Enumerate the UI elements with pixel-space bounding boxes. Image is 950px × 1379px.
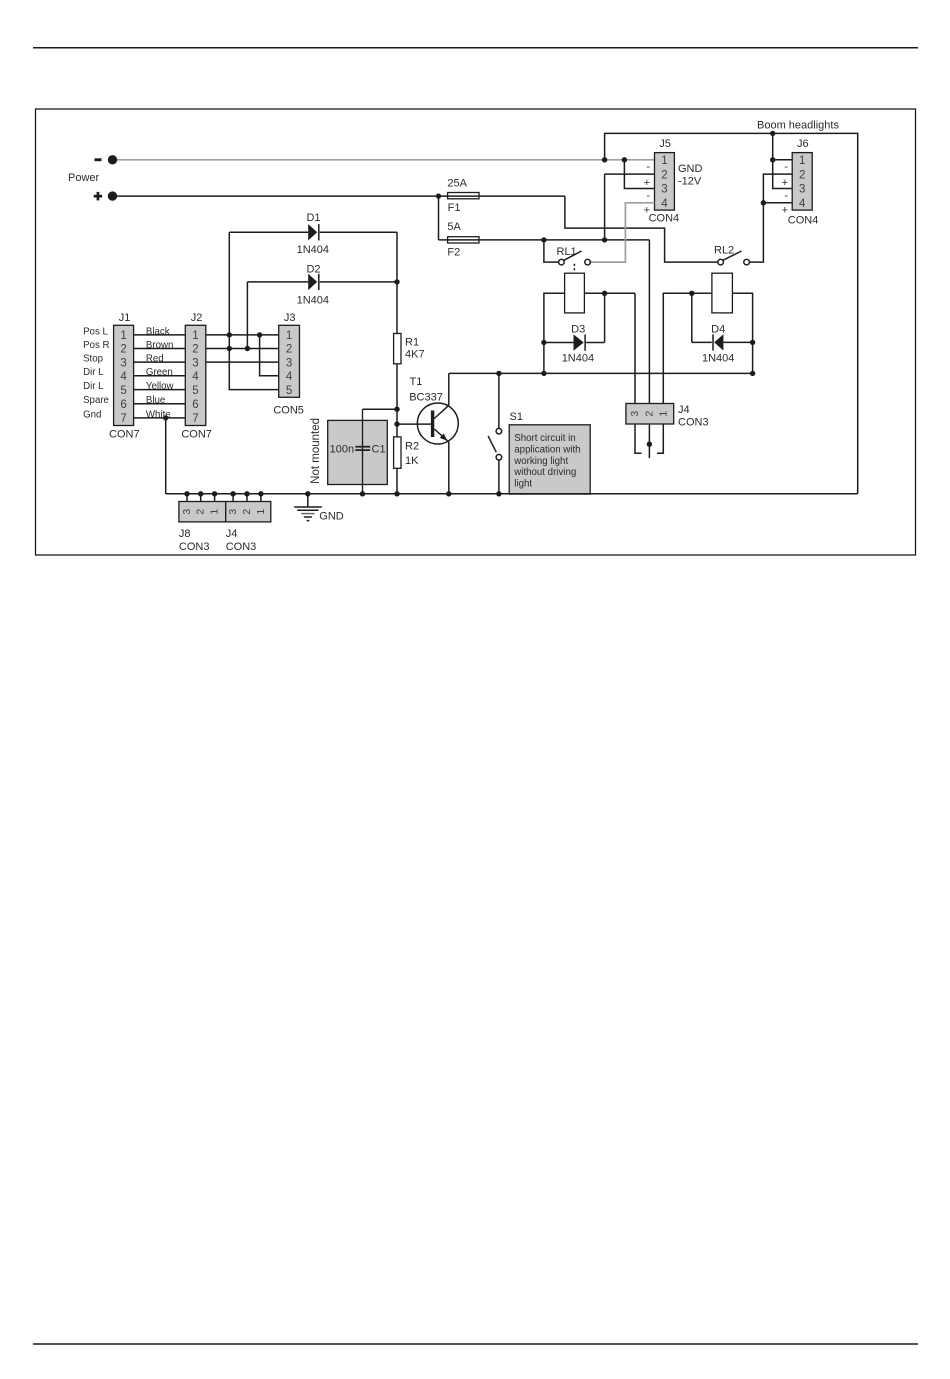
svg-text:4: 4 <box>192 371 199 383</box>
junction R2/gnd <box>394 491 399 496</box>
svg-text:2: 2 <box>286 344 292 356</box>
svg-text:Dir L: Dir L <box>83 381 104 392</box>
junction rail/S1 <box>496 371 501 376</box>
wire plus power to F1 <box>113 195 565 197</box>
svg-text:Not mounted: Not mounted <box>310 418 322 484</box>
junction row2/D2 <box>245 346 250 351</box>
svg-text:5: 5 <box>286 385 292 397</box>
junction fuse feed <box>436 193 441 198</box>
svg-text:CON7: CON7 <box>109 428 140 440</box>
fuse F1 <box>447 178 479 215</box>
wire J6 pin4 to RL2 <box>749 203 763 262</box>
wire J4 pin3 riser <box>634 293 636 403</box>
svg-text:5: 5 <box>120 385 126 397</box>
svg-text:J4: J4 <box>678 404 690 416</box>
connector J3 CON5 <box>273 312 304 416</box>
transistor T1 BC337 <box>409 376 458 444</box>
wire F1 to RL2 input <box>565 196 718 262</box>
svg-text:CON3: CON3 <box>179 541 210 553</box>
wire R2 to ground rail <box>396 468 398 494</box>
wire S1 top <box>498 373 500 428</box>
wires J2 to J3 <box>206 335 279 362</box>
svg-text:Power: Power <box>68 172 100 184</box>
junction row2/D1 riser <box>227 346 232 351</box>
svg-text:2: 2 <box>661 169 667 181</box>
wire J6 pin1 from boom <box>773 133 793 159</box>
svg-text:5A: 5A <box>447 221 461 233</box>
svg-text:J3: J3 <box>284 312 296 324</box>
junction minus/boom <box>602 157 607 162</box>
svg-text:GND: GND <box>319 510 344 522</box>
diode D1 <box>229 212 397 256</box>
wire J6 pin3 link <box>773 160 793 189</box>
wire D4 cathode drop <box>691 293 693 342</box>
svg-text:4: 4 <box>286 371 293 383</box>
diode D4 <box>692 324 753 365</box>
junction F2/RL1 <box>541 237 546 242</box>
label Boom headlights <box>757 119 839 131</box>
svg-text:R2: R2 <box>405 440 419 452</box>
svg-text:without driving: without driving <box>513 467 576 478</box>
svg-text:+: + <box>644 205 650 217</box>
svg-text:-: - <box>784 161 788 173</box>
svg-text:3: 3 <box>192 357 198 369</box>
wire C1 top <box>363 408 398 410</box>
svg-text:+: + <box>782 205 788 217</box>
wire J6 pin2 <box>763 174 792 203</box>
wire D1 riser to J3 pin5 <box>229 232 278 389</box>
schematic border frame <box>36 109 916 555</box>
connector J5 CON4 <box>644 138 680 225</box>
junction D1/D2 <box>394 279 399 284</box>
svg-text:CON3: CON3 <box>678 417 709 429</box>
junction RL1 rail/bottom <box>541 371 546 376</box>
svg-text:3: 3 <box>661 184 667 196</box>
svg-text:C1: C1 <box>372 444 386 456</box>
wire boom headlights <box>605 133 858 493</box>
svg-text:J2: J2 <box>191 312 203 324</box>
svg-text:3: 3 <box>286 357 292 369</box>
labels J1-J2 wire colours <box>146 326 175 420</box>
junction J6 pin4 <box>761 200 766 205</box>
junction row1/D1 <box>227 332 232 337</box>
wire J4 pin1 stub <box>657 424 663 453</box>
junction F2/J5 pin2 <box>602 237 607 242</box>
capacitor C1 block <box>328 420 388 484</box>
wire plus drop to F2 <box>438 196 440 240</box>
wire D1 down to R1 <box>396 232 398 333</box>
wire D3 cathode drop <box>604 293 606 342</box>
wire D2 riser <box>246 282 248 349</box>
resistor R2 <box>394 437 420 468</box>
diode D2 <box>247 263 397 306</box>
svg-text:2: 2 <box>192 344 198 356</box>
svg-text:2: 2 <box>195 509 207 515</box>
ground symbol GND <box>294 494 344 523</box>
svg-text:3: 3 <box>181 509 193 515</box>
connector J8 CON3 <box>179 502 226 553</box>
junction row1/J3 pin4 <box>257 332 262 337</box>
wire RL1 coil right <box>584 292 635 294</box>
svg-text:25A: 25A <box>447 178 467 190</box>
svg-text:1N404: 1N404 <box>702 352 734 364</box>
wire J4 pin2 stub <box>648 424 650 458</box>
svg-text:CON7: CON7 <box>181 428 212 440</box>
wire J5 pin3 to minus <box>624 160 654 189</box>
svg-text:Short circuit in: Short circuit in <box>514 433 575 444</box>
junction D4 anode <box>750 340 755 345</box>
wires J1 to J2 <box>134 335 186 418</box>
svg-text:S1: S1 <box>510 411 523 423</box>
svg-text:-: - <box>646 190 650 202</box>
svg-text:D2: D2 <box>306 263 320 275</box>
wire T1 base <box>397 423 431 425</box>
relay coil RL2 <box>712 273 733 313</box>
svg-text:4: 4 <box>120 371 127 383</box>
svg-text:BC337: BC337 <box>409 391 443 403</box>
label Not mounted <box>310 418 322 484</box>
svg-text:working light: working light <box>513 456 568 467</box>
svg-text:Stop: Stop <box>83 354 103 365</box>
svg-text:application with: application with <box>514 445 580 456</box>
svg-text:1K: 1K <box>405 455 419 467</box>
junction J6 pin1 <box>770 157 775 162</box>
svg-text:D4: D4 <box>711 324 725 336</box>
svg-text:J8: J8 <box>179 528 191 540</box>
labels J1 pin functions <box>83 326 109 420</box>
junction J4 pin2 stub <box>647 442 652 447</box>
wire J5 pin2 drop <box>604 174 606 240</box>
svg-text:5: 5 <box>192 385 198 397</box>
svg-text:RL1: RL1 <box>557 246 577 258</box>
wire F2 to J4 pin2 <box>648 240 650 404</box>
wire RL2 coil right rail <box>732 293 752 373</box>
page header rule <box>33 47 918 49</box>
svg-text:1: 1 <box>286 330 292 342</box>
wire T1 emitter <box>448 442 450 494</box>
relay coil RL1 <box>565 273 585 313</box>
relay contact RL2 <box>714 245 749 265</box>
svg-text:2: 2 <box>799 169 805 181</box>
junction base/C1 <box>394 407 399 412</box>
svg-text:Pos R: Pos R <box>83 340 109 351</box>
svg-text:GND: GND <box>678 163 703 175</box>
label -12V net J5 <box>678 176 702 188</box>
junction RL1 coil/D3 <box>602 291 607 296</box>
svg-text:CON4: CON4 <box>788 215 819 227</box>
wire minus power rail (gray) <box>113 159 655 161</box>
svg-text:1N404: 1N404 <box>562 352 594 364</box>
svg-text:Spare: Spare <box>83 395 109 406</box>
junction Gnd wire <box>163 415 168 420</box>
svg-text:4K7: 4K7 <box>405 349 425 361</box>
svg-text:1: 1 <box>255 509 267 515</box>
resistor R1 <box>394 334 425 364</box>
capacitor C1 plates <box>355 409 370 494</box>
relay RL1 actuator link <box>573 264 575 273</box>
svg-text:3: 3 <box>120 357 126 369</box>
connector J4 CON3 bottom <box>226 502 271 553</box>
connector J4 CON3 <box>626 404 709 429</box>
wire J5 pin4 to RL1 (gray) <box>590 203 654 262</box>
note short-circuit application <box>509 425 590 494</box>
svg-text:1: 1 <box>192 330 198 342</box>
connector J1 CON7 <box>109 312 140 440</box>
svg-text:Gnd: Gnd <box>83 409 101 420</box>
junction minus/J5 pin3 <box>622 157 627 162</box>
svg-text:4: 4 <box>799 198 806 210</box>
junction D3 anode <box>541 340 546 345</box>
svg-text:Pos L: Pos L <box>83 326 108 337</box>
switch S1 <box>488 411 523 460</box>
svg-text:7: 7 <box>120 413 126 425</box>
svg-text:D3: D3 <box>571 324 585 336</box>
svg-text:-: - <box>646 161 650 173</box>
diode D3 <box>544 324 605 365</box>
svg-text:Boom headlights: Boom headlights <box>757 119 839 131</box>
svg-text:6: 6 <box>192 399 198 411</box>
svg-text:1N404: 1N404 <box>297 295 329 307</box>
svg-text:3: 3 <box>227 509 239 515</box>
svg-text:J5: J5 <box>659 138 671 150</box>
power minus terminal <box>95 155 118 164</box>
wires J8/J4 stubs <box>187 494 261 502</box>
wire J4 pin3 stub <box>635 424 642 453</box>
wire S1 bottom <box>498 460 500 494</box>
svg-text:J1: J1 <box>119 312 131 324</box>
junction base/T1 <box>394 421 399 426</box>
svg-text:1: 1 <box>799 155 805 167</box>
connector J6 CON4 <box>782 138 819 227</box>
relay contact RL1 <box>557 246 591 265</box>
svg-text:1N404: 1N404 <box>297 244 329 256</box>
page footer rule <box>33 1343 918 1345</box>
svg-text:CON4: CON4 <box>649 213 680 225</box>
svg-text:J6: J6 <box>797 138 809 150</box>
power plus terminal <box>94 191 118 200</box>
svg-text:-12V: -12V <box>678 176 702 188</box>
wire Gnd drop <box>165 418 167 494</box>
svg-text:6: 6 <box>120 399 126 411</box>
wire relay bottom rail <box>449 372 753 374</box>
wire RL1 coil left rail <box>544 293 565 373</box>
svg-text:3: 3 <box>629 411 641 417</box>
wire ground rail <box>166 493 858 495</box>
junction T1 emitter/gnd <box>446 491 451 496</box>
svg-text:D1: D1 <box>306 212 320 224</box>
junction gnd symbol <box>305 491 310 496</box>
svg-text:100n: 100n <box>330 444 354 456</box>
junction RL2 coil/D4 <box>689 291 694 296</box>
junctions J8/J4 taps <box>184 491 263 496</box>
svg-text:2: 2 <box>643 411 655 417</box>
svg-text:2: 2 <box>241 509 253 515</box>
junction boom/J6 <box>770 131 775 136</box>
wire J5 pin2 <box>605 173 655 175</box>
junction S1/gnd <box>496 491 501 496</box>
wire T1 collector <box>448 373 450 405</box>
wire R1 to R2 <box>396 364 398 437</box>
svg-text:CON3: CON3 <box>226 541 257 553</box>
svg-text:1: 1 <box>120 330 126 342</box>
svg-text:1: 1 <box>209 509 221 515</box>
wire F2 to RL1 contact <box>544 240 559 262</box>
svg-text:RL2: RL2 <box>714 245 734 257</box>
svg-text:7: 7 <box>192 413 198 425</box>
svg-text:-: - <box>784 190 788 202</box>
svg-text:CON5: CON5 <box>273 405 304 417</box>
fuse F2 <box>447 221 479 259</box>
svg-text:F1: F1 <box>448 202 461 214</box>
svg-text:2: 2 <box>120 344 126 356</box>
svg-text:+: + <box>644 177 650 189</box>
svg-text:1: 1 <box>657 411 669 417</box>
svg-text:Dir L: Dir L <box>83 367 104 378</box>
svg-text:+: + <box>782 177 788 189</box>
connector J2 CON7 <box>181 312 212 440</box>
svg-text:T1: T1 <box>410 376 423 388</box>
wire RL2 coil left to J4 pin1 <box>663 293 712 403</box>
junction C1/gnd <box>360 491 365 496</box>
svg-text:3: 3 <box>799 184 805 196</box>
svg-text:R1: R1 <box>405 337 419 349</box>
junction RL2 rail/bottom <box>750 371 755 376</box>
svg-text:F2: F2 <box>447 247 460 259</box>
wire F2 line <box>439 239 650 241</box>
svg-text:4: 4 <box>661 198 668 210</box>
wire row1 to J3 pin4 <box>260 335 279 376</box>
svg-text:J4: J4 <box>226 528 238 540</box>
svg-text:light: light <box>514 478 532 489</box>
svg-text:1: 1 <box>661 155 667 167</box>
label Power <box>68 172 100 184</box>
label GND net J5 <box>678 163 703 175</box>
